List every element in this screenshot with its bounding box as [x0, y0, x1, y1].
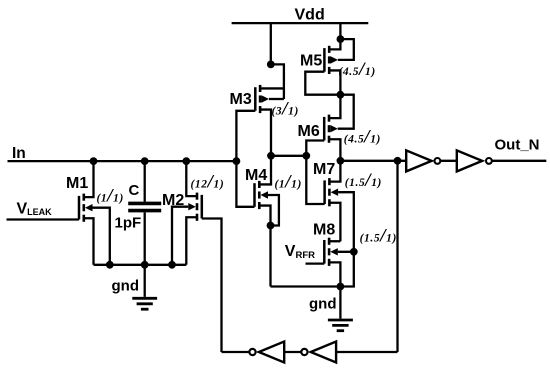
wire M8 drain up: [329, 240, 340, 242]
wire to ground symbol right: [339, 287, 341, 319]
inverter U4 (feedback): [249, 342, 284, 363]
wire M5 drain down: [329, 70, 340, 94]
wire M7 body down: [338, 192, 354, 252]
wire capacitor bottom plate to ground rail: [144, 212, 146, 264]
svg-text:M5: M5: [300, 53, 322, 70]
svg-text:M3: M3: [230, 91, 252, 108]
ground symbol left: [132, 298, 157, 309]
svg-text:C: C: [129, 182, 140, 199]
wire M7 gate from node A: [306, 156, 324, 204]
node output-M6/M7 junction: [337, 157, 345, 165]
svg-text:gnd: gnd: [112, 278, 140, 295]
svg-text:1pF: 1pF: [115, 215, 142, 232]
wire M6 gate to node A: [306, 141, 324, 156]
wire M3 source hook: [260, 87, 284, 89]
wire M4 body to source: [268, 195, 279, 226]
wire M4 gate to In: [236, 161, 254, 207]
node In-M2 junction: [182, 157, 190, 165]
node ground junction right: [337, 283, 345, 291]
wire M2 source down: [186, 217, 197, 265]
wire M4 source down to ground rail: [259, 206, 270, 287]
node In-M1 junction: [90, 157, 98, 165]
wire In line: [8, 160, 237, 162]
transistor M7: [325, 178, 339, 206]
node M5 drain/gate junction: [337, 91, 345, 99]
wire V_RFR to M8 gate: [306, 262, 325, 264]
wire M3 gate to In: [236, 111, 255, 161]
wire M5 source up to Vdd: [329, 39, 340, 49]
transistor M8: [324, 238, 338, 266]
wire Vdd drop to M5 source: [339, 23, 341, 39]
wire M4 drain up to node A: [259, 156, 271, 185]
ground symbol right: [328, 320, 353, 331]
node output-feedback junction: [394, 157, 402, 165]
wire output node down to feedback inverters: [396, 161, 398, 352]
wire Vdd drop to M3 source: [270, 23, 272, 64]
wire feedback right segment: [336, 351, 397, 353]
transistor M3: [255, 85, 269, 113]
wire M2 gate to feedback inverters: [202, 219, 222, 353]
node M5 source tie: [337, 35, 345, 43]
wire M1 source down: [84, 218, 94, 265]
capacitor C 1pF: [128, 203, 161, 210]
inverter U1: [406, 150, 440, 171]
wire M5 gate diode connection: [305, 72, 340, 95]
svg-text:M8: M8: [313, 222, 335, 239]
svg-text:gnd: gnd: [309, 296, 337, 313]
wire M1 drain to In: [84, 161, 94, 197]
node A left junction: [267, 152, 275, 160]
node M3 source tie: [267, 61, 275, 69]
wire M5 body tie hook: [338, 39, 354, 60]
node A right junction: [302, 152, 310, 160]
node capacitor-rail junction: [141, 261, 149, 269]
node M7/M8 body junction: [350, 248, 358, 256]
wire output node to inverter U1: [340, 160, 406, 162]
wire M6 drain down to output node: [329, 139, 340, 161]
wire M2 body to ground rail: [172, 207, 188, 265]
node In-C junction: [141, 157, 149, 165]
wire M3 drain down to node A: [260, 110, 271, 156]
wire ground rail right (M4 source to gnd): [271, 285, 341, 287]
wire M1 body to ground rail: [93, 208, 110, 265]
wire node A segment: [271, 155, 306, 157]
wire V_LEAK to M1 gate: [7, 218, 80, 220]
svg-text:M7: M7: [313, 161, 335, 178]
wire M7 source down to M8 drain: [329, 203, 340, 242]
transistor M2: [188, 193, 202, 221]
svg-text:M6: M6: [298, 123, 320, 140]
transistor M5: [324, 46, 338, 74]
wire M6 body tie hook: [338, 95, 354, 129]
wire M8 body down to ground: [340, 252, 353, 287]
inverter U3 (feedback): [301, 342, 336, 363]
svg-text:In: In: [12, 145, 26, 162]
node M4 body-source junction: [267, 222, 275, 230]
inverter U2: [457, 150, 492, 171]
node M1 body-rail junction: [106, 261, 114, 269]
svg-text:Vdd: Vdd: [295, 7, 325, 24]
node In-M3/M4 gates junction: [233, 157, 241, 165]
wire U3 to U4: [284, 351, 300, 353]
transistor M1: [79, 194, 93, 222]
wire Vdd rail: [232, 22, 369, 24]
wire M8 body junction: [338, 251, 354, 253]
wire M8 source down to ground: [329, 262, 340, 286]
wire M2 drain to In: [186, 161, 197, 196]
wire U1 to U2: [441, 160, 457, 162]
wire M3 source/body tie to Vdd drop: [271, 64, 284, 99]
transistor M6: [324, 115, 338, 143]
svg-text:M1: M1: [66, 175, 88, 192]
node M2 body-rail junction: [168, 261, 176, 269]
wire M7 drain up to output node: [329, 161, 340, 182]
wire rail to ground symbol: [144, 265, 146, 297]
svg-text:Out_N: Out_N: [495, 136, 540, 153]
transistor M4: [255, 181, 269, 209]
svg-text:M4: M4: [245, 167, 267, 184]
wire In to capacitor top plate: [144, 161, 146, 202]
wire U2 to Out_N: [492, 160, 546, 162]
wire M6 source up to M5 drain: [329, 95, 340, 118]
wire ground rail left: [94, 264, 187, 266]
wire M3 body line: [269, 98, 284, 100]
wire U4 to M2 gate: [222, 351, 249, 353]
